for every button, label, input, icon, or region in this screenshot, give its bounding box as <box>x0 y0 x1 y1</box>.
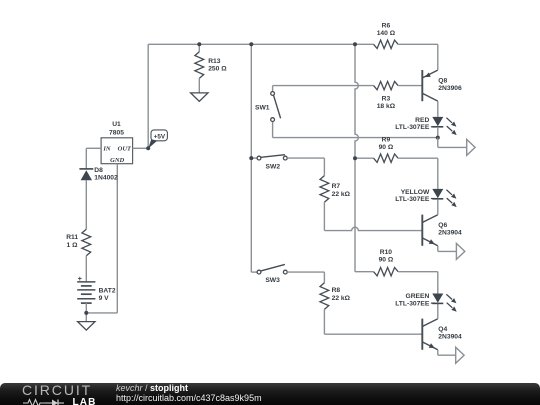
svg-text:140 Ω: 140 Ω <box>377 30 396 37</box>
svg-text:D8: D8 <box>94 167 103 174</box>
svg-text:Q6: Q6 <box>438 222 447 229</box>
svg-text:GND: GND <box>110 157 124 164</box>
svg-text:2N3904: 2N3904 <box>438 230 462 237</box>
svg-text:1 Ω: 1 Ω <box>67 242 79 249</box>
svg-text:SW2: SW2 <box>266 163 281 170</box>
svg-text:YELLOW: YELLOW <box>401 189 430 196</box>
svg-text:22 kΩ: 22 kΩ <box>332 295 351 302</box>
svg-text:IN: IN <box>102 146 111 153</box>
svg-text:90 Ω: 90 Ω <box>379 257 394 264</box>
svg-text:Q8: Q8 <box>438 77 447 84</box>
svg-text:LTL-307EE: LTL-307EE <box>395 300 430 307</box>
svg-text:BAT2: BAT2 <box>99 287 116 294</box>
svg-text:GREEN: GREEN <box>406 293 430 300</box>
svg-text:2N3904: 2N3904 <box>438 334 462 341</box>
svg-text:1N4002: 1N4002 <box>94 175 118 182</box>
svg-text:SW1: SW1 <box>255 104 270 111</box>
svg-text:R10: R10 <box>380 249 393 256</box>
svg-text:R7: R7 <box>332 183 341 190</box>
svg-text:2N3906: 2N3906 <box>438 85 462 92</box>
svg-text:R9: R9 <box>382 137 391 144</box>
svg-text:LTL-307EE: LTL-307EE <box>395 196 430 203</box>
svg-text:7805: 7805 <box>109 129 124 136</box>
svg-text:9 V: 9 V <box>99 295 110 302</box>
svg-text:SW3: SW3 <box>265 277 280 284</box>
svg-text:LTL-307EE: LTL-307EE <box>395 124 430 131</box>
svg-text:Q4: Q4 <box>438 326 447 333</box>
svg-text:OUT: OUT <box>118 146 132 153</box>
svg-text:R3: R3 <box>382 95 391 102</box>
svg-text:+5V: +5V <box>154 133 166 140</box>
svg-text:U1: U1 <box>112 121 121 128</box>
svg-text:R13: R13 <box>208 58 221 65</box>
svg-text:R8: R8 <box>332 287 341 294</box>
svg-text:R11: R11 <box>66 234 78 241</box>
svg-text:+: + <box>78 274 83 283</box>
svg-text:250 Ω: 250 Ω <box>208 66 227 73</box>
svg-text:RED: RED <box>415 117 429 124</box>
svg-text:22 kΩ: 22 kΩ <box>332 191 351 198</box>
svg-text:18 kΩ: 18 kΩ <box>377 103 396 110</box>
svg-text:R6: R6 <box>382 22 391 29</box>
svg-text:90 Ω: 90 Ω <box>379 144 394 151</box>
